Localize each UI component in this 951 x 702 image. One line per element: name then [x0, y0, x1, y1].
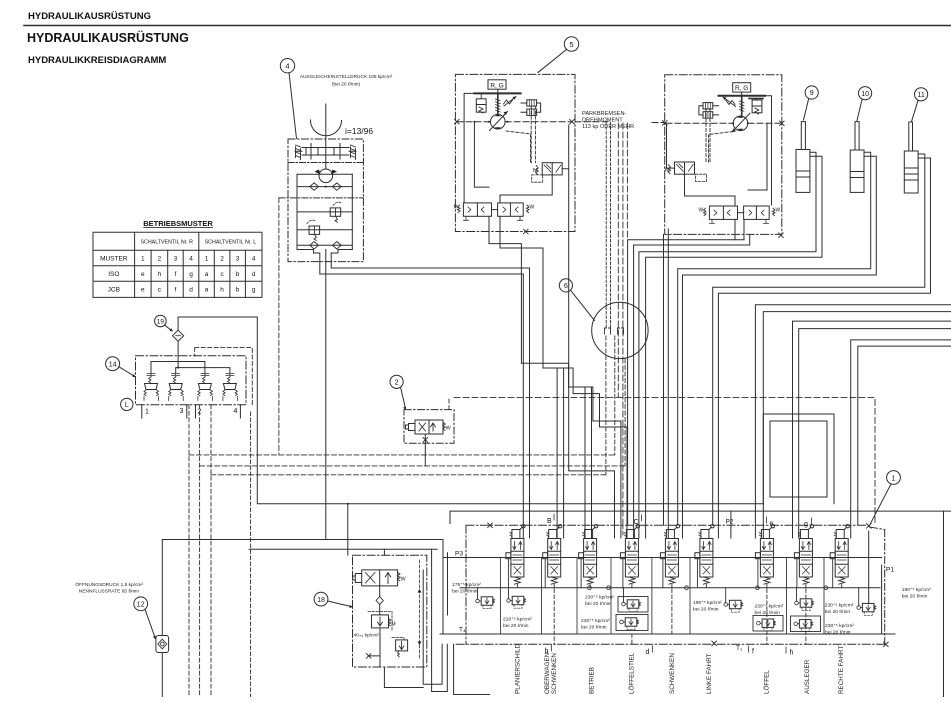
- X mark on bottom border: [524, 229, 529, 234]
- wire bus right edge 3: [793, 321, 951, 538]
- motor circle: [733, 116, 748, 131]
- callout circle 10: [857, 87, 872, 121]
- pump control pilot dashed: [278, 198, 280, 455]
- callout circle 5: [538, 37, 579, 73]
- svg-text:AUSLEGER: AUSLEGER: [804, 659, 811, 694]
- wire cyl11 a: [713, 154, 925, 525]
- solenoid valve: [362, 570, 398, 586]
- valve PLANIERSCHILD: [506, 525, 525, 588]
- rung 1 with check diamonds: [297, 186, 352, 188]
- check valve 12: [156, 636, 169, 653]
- top link: [383, 549, 385, 555]
- pilot dash to linke fahrt cap: [622, 525, 624, 536]
- callout circle 9: [804, 86, 819, 120]
- wire motor to counterbalance dashes: [531, 106, 535, 163]
- svg-text:19: 19: [157, 319, 165, 326]
- wire drops valve2: [557, 368, 564, 538]
- servo right hatch: [351, 145, 356, 160]
- shuttle valve pair bottom: [709, 206, 737, 219]
- svg-text:JCB: JCB: [108, 287, 120, 294]
- relief valve P1: [868, 531, 870, 603]
- right outer wire: [748, 96, 772, 205]
- riser through valve 12: [161, 540, 163, 698]
- valve LOEFFEL: [755, 525, 774, 588]
- svg-text:h: h: [220, 287, 224, 294]
- R,G box: [488, 80, 506, 89]
- svg-text:L: L: [125, 402, 129, 409]
- svg-text:(bei 20 ℓ/min): (bei 20 ℓ/min): [332, 82, 361, 88]
- svg-text:a: a: [205, 287, 209, 294]
- dashed centerline: [666, 122, 780, 124]
- divider dash-dot: [288, 162, 363, 164]
- drop and check: [379, 586, 381, 615]
- shaft with hatch: [497, 93, 499, 114]
- pressure labels: [452, 582, 931, 636]
- svg-text:HYDRAULIKAUSRÜSTUNG: HYDRAULIKAUSRÜSTUNG: [27, 30, 189, 45]
- svg-text:190⁺⁵ kp/cm²: 190⁺⁵ kp/cm²: [902, 587, 931, 593]
- pump unit 4 enclosure: [279, 104, 373, 455]
- svg-text:230⁺⁵ kp/cm²: 230⁺⁵ kp/cm²: [825, 603, 854, 609]
- pump drive shaft: [325, 104, 327, 169]
- callout circle 1: [871, 471, 901, 524]
- title small: [28, 11, 151, 22]
- svg-text:W: W: [446, 426, 452, 432]
- pilot dashed elbows to bank: [189, 454, 615, 456]
- control bar: [474, 92, 520, 94]
- check valve 19: [173, 330, 184, 341]
- svg-text:f: f: [752, 649, 754, 656]
- bottom line: [440, 633, 895, 635]
- svg-text:18: 18: [317, 597, 325, 604]
- rung 2 relief: [297, 211, 352, 213]
- relief valve P3 section: [476, 597, 495, 609]
- svg-text:12: 12: [137, 602, 145, 609]
- wire bus right edge 6: [858, 346, 951, 525]
- svg-text:g: g: [252, 287, 256, 294]
- callout circle 6: [559, 279, 594, 321]
- svg-text:h: h: [158, 271, 162, 278]
- svg-text:10: 10: [861, 91, 869, 98]
- svg-text:W: W: [699, 208, 704, 214]
- port letters top: [547, 518, 808, 528]
- wire drain to bank: [326, 540, 443, 635]
- valve RECHTE FAHRT: [830, 525, 849, 588]
- relief riser stubs: [478, 588, 859, 606]
- svg-text:W: W: [776, 208, 781, 214]
- svg-text:P3: P3: [455, 551, 463, 558]
- coil spring lower: [527, 109, 537, 115]
- wire right box to schwenken: [664, 229, 669, 538]
- accessory valve block 18: [353, 549, 427, 667]
- callout circle 19: [155, 315, 173, 331]
- servo left hatch: [296, 145, 301, 160]
- svg-text:1: 1: [892, 475, 896, 482]
- svg-text:2: 2: [395, 380, 399, 387]
- swivel joint 6: [592, 302, 648, 358]
- svg-text:B: B: [547, 518, 552, 525]
- svg-text:4: 4: [234, 408, 238, 415]
- relief valve ausleger a: [795, 599, 814, 611]
- port labels P3 P2 P1 T4 T1: [455, 519, 894, 653]
- svg-text:SCHWENKEN: SCHWENKEN: [669, 653, 676, 694]
- svg-text:b: b: [236, 271, 240, 278]
- pilot unit 1: [144, 374, 159, 401]
- svg-text:SCHALTVENTIL Nr. R: SCHALTVENTIL Nr. R: [141, 240, 194, 246]
- enclosure dash-dot: [455, 74, 575, 231]
- travel motor right (part of 5): [665, 75, 783, 238]
- svg-text:M: M: [533, 168, 538, 174]
- svg-text:bei 20 ℓ/min: bei 20 ℓ/min: [902, 594, 928, 600]
- svg-text:1: 1: [141, 256, 145, 263]
- wire cyl11 b: [718, 158, 930, 538]
- X marks on boundary: [488, 523, 888, 647]
- svg-text:R, G: R, G: [490, 82, 503, 89]
- pilot dash below swivel: [605, 336, 607, 475]
- svg-text:OBERWAGEN-: OBERWAGEN-: [544, 651, 551, 694]
- header rule: [24, 25, 951, 27]
- label AUSGLEICHEINSTELLDRUCK: [300, 74, 393, 88]
- svg-text:bei 20 ℓ/min: bei 20 ℓ/min: [825, 609, 851, 615]
- svg-text:BETRIEBSMUSTER: BETRIEBSMUSTER: [143, 219, 213, 228]
- circle L: [121, 398, 133, 410]
- dashes to counterbalance: [706, 109, 710, 163]
- travel motor left (part of 5): [454, 74, 576, 233]
- valve LOEFFELSTIEL: [620, 525, 639, 588]
- svg-text:190⁺⁵ kp/cm²: 190⁺⁵ kp/cm²: [693, 600, 722, 606]
- svg-text:i=13/96: i=13/96: [345, 126, 373, 136]
- cylinder 10: [850, 122, 864, 193]
- svg-text:175⁺⁵ kp/cm²: 175⁺⁵ kp/cm²: [452, 582, 481, 588]
- relief valve loeffelstiel b: [616, 615, 648, 631]
- bottom stub and X: [369, 628, 380, 667]
- svg-text:113 kp ODER MEHR: 113 kp ODER MEHR: [582, 124, 634, 130]
- cylinder 9: [796, 122, 810, 193]
- ladder rails: [297, 174, 352, 249]
- svg-text:HYDRAULIKAUSRÜSTUNG: HYDRAULIKAUSRÜSTUNG: [28, 11, 151, 22]
- svg-text:3: 3: [180, 408, 184, 415]
- wire loop rectangle right: [763, 414, 834, 504]
- relief valve loeffelstiel a: [618, 597, 648, 613]
- parkbremsen label: [582, 111, 634, 130]
- svg-text:T₁: T₁: [736, 645, 743, 652]
- drain dashes in bank: [554, 589, 806, 644]
- pilot unit 4: [223, 374, 238, 401]
- callout circle 4: [280, 58, 296, 138]
- svg-text:14: 14: [109, 361, 117, 368]
- wires left box to bank staircase b: [500, 216, 627, 538]
- svg-text:d: d: [189, 287, 193, 294]
- drain bus left: [162, 539, 325, 541]
- svg-text:3: 3: [174, 256, 178, 263]
- svg-text:ISO: ISO: [108, 271, 119, 278]
- pilot dashed long b: [617, 123, 619, 397]
- work line: [443, 557, 882, 559]
- svg-text:1: 1: [205, 256, 209, 263]
- svg-text:DREHMOMENT: DREHMOMENT: [582, 118, 623, 124]
- svg-text:230⁺⁵ kp/cm²: 230⁺⁵ kp/cm²: [755, 604, 784, 610]
- coil spring upper: [527, 100, 537, 106]
- pilot supply wire from 19 to bank: [178, 317, 763, 504]
- svg-text:4: 4: [252, 256, 256, 263]
- svg-text:P2: P2: [726, 519, 734, 526]
- svg-text:W: W: [401, 577, 407, 583]
- reducing valve: [372, 615, 389, 628]
- cylinder 11: [904, 122, 918, 193]
- valve BETRIEB: [579, 525, 598, 588]
- svg-text:11: 11: [917, 92, 924, 99]
- motor circle: [491, 114, 506, 129]
- dashed pilot bus to bank: [454, 397, 875, 525]
- svg-text:6: 6: [564, 283, 568, 290]
- bell arc: [310, 120, 341, 136]
- svg-text:R, G: R, G: [735, 85, 748, 92]
- wire bus right edge 2: [763, 312, 951, 538]
- svg-text:5: 5: [569, 40, 573, 49]
- control bar: [719, 95, 766, 97]
- rung 3 relief: [297, 229, 352, 231]
- wire bus right edge 1: [755, 305, 951, 538]
- svg-text:ÖFFNUNGSDRUCK 1,5 kp/cm²: ÖFFNUNGSDRUCK 1,5 kp/cm²: [75, 581, 143, 588]
- svg-text:HYDRAULIKKREISDIAGRAMM: HYDRAULIKKREISDIAGRAMM: [28, 55, 166, 66]
- svg-text:9: 9: [810, 90, 814, 97]
- svg-text:P1: P1: [886, 567, 894, 574]
- svg-text:T₄: T₄: [459, 627, 466, 634]
- ladder bottom exits: [297, 250, 352, 254]
- wire bus right edge 5: [851, 340, 951, 538]
- svg-text:bei 20 ℓ/min: bei 20 ℓ/min: [825, 630, 851, 636]
- check line: [460, 587, 880, 589]
- valve SCHWENKEN: [660, 525, 679, 588]
- svg-text:g: g: [804, 521, 808, 528]
- counterbalance valve: [675, 162, 695, 174]
- valve LINKE FAHRT: [695, 525, 714, 588]
- wire P2 feed: [450, 511, 951, 523]
- valve OBERWAGEN-SCHWENKEN: [543, 525, 562, 588]
- callout circle 2: [390, 375, 406, 410]
- svg-text:230⁺⁵ kp/cm²: 230⁺⁵ kp/cm²: [581, 618, 610, 624]
- pilot dashed through swivel a: [605, 123, 607, 328]
- wire bus right edge 4: [799, 329, 951, 538]
- svg-text:4: 4: [285, 62, 289, 71]
- svg-text:bei 20 ℓ/min: bei 20 ℓ/min: [755, 610, 781, 616]
- svg-text:d: d: [252, 271, 256, 278]
- parkbremsen dashed centerline: [457, 121, 571, 123]
- svg-text:e: e: [141, 287, 145, 294]
- solenoid valve 2: [404, 397, 454, 466]
- relief valve linke fahrt: [724, 600, 743, 612]
- pilot dashed lines down from 14: [188, 405, 190, 697]
- callout circle 12: [134, 597, 156, 639]
- svg-text:a: a: [205, 271, 209, 278]
- port dividers and numbers: [142, 405, 241, 418]
- port letters bottom: [545, 648, 794, 657]
- wires left box to bank c: [569, 125, 615, 538]
- wires right box to bank: [735, 219, 744, 239]
- rung 4 with check diamonds: [297, 244, 352, 246]
- function labels rotated: [514, 644, 845, 694]
- svg-text:d: d: [646, 649, 650, 656]
- relief: [396, 640, 408, 651]
- svg-text:2: 2: [220, 256, 224, 263]
- wire cyl9 b: [646, 156, 822, 538]
- pilot unit 2: [169, 374, 184, 401]
- svg-text:bei 20 ℓ/min: bei 20 ℓ/min: [452, 589, 478, 595]
- svg-text:M: M: [454, 205, 458, 211]
- shuttle valve pair bottom: [463, 203, 491, 216]
- enclosure dash-dot: [665, 75, 782, 235]
- dashed link between motors: [575, 121, 665, 124]
- svg-text:RECHTE FAHRT: RECHTE FAHRT: [838, 646, 845, 694]
- svg-text:230⁺⁵ kp/cm²: 230⁺⁵ kp/cm²: [585, 595, 614, 601]
- svg-text:1: 1: [145, 409, 149, 416]
- svg-text:W: W: [530, 205, 535, 211]
- left outer wire: [464, 93, 489, 203]
- wire supply drop to block 18: [347, 504, 349, 555]
- brake cylinder: [476, 99, 486, 112]
- svg-text:LÖFFELSTIEL: LÖFFELSTIEL: [627, 652, 635, 694]
- right inner dashed: [419, 560, 421, 660]
- svg-text:SCHALTVENTIL Nr. L: SCHALTVENTIL Nr. L: [205, 240, 257, 246]
- servo cylinder: [302, 148, 349, 156]
- wire right edge drop: [943, 511, 945, 697]
- svg-text:f: f: [174, 287, 176, 294]
- cross link buses: [151, 362, 230, 378]
- relief valve loeffel: [753, 616, 783, 632]
- svg-text:b: b: [236, 287, 240, 294]
- svg-text:4: 4: [189, 256, 193, 263]
- svg-text:SCHWENKEN: SCHWENKEN: [551, 653, 558, 694]
- check nodes: [588, 586, 592, 590]
- section divider lines: [500, 558, 824, 635]
- X on bottom border: [779, 233, 784, 238]
- swash spring arrow: [723, 97, 736, 107]
- counterbalance valve left unit: [542, 163, 562, 175]
- svg-text:LÖFFEL: LÖFFEL: [763, 670, 771, 694]
- valve AUSLEGER: [794, 525, 813, 588]
- wire pump output 2: [331, 262, 529, 538]
- svg-text:AUSGLEICHEINSTELLDRUCK 105 kp/: AUSGLEICHEINSTELLDRUCK 105 kp/cm²: [300, 74, 393, 80]
- svg-text:230⁺⁵ kp/cm²: 230⁺⁵ kp/cm²: [825, 623, 854, 629]
- svg-text:3: 3: [236, 256, 240, 263]
- dashed line right of 14: [250, 412, 252, 697]
- wire drops betrieb: [585, 387, 592, 538]
- subtitle: [28, 55, 166, 66]
- svg-text:MUSTER: MUSTER: [100, 256, 128, 263]
- svg-text:bei 20 ℓ/min: bei 20 ℓ/min: [503, 623, 529, 629]
- tank comb bottom: [423, 570, 442, 684]
- svg-text:LINKE FAHRT: LINKE FAHRT: [706, 653, 713, 694]
- svg-text:2: 2: [158, 256, 162, 263]
- table BETRIEBSMUSTER: [93, 219, 262, 297]
- R,G box: [733, 83, 751, 92]
- svg-text:g: g: [189, 271, 193, 278]
- wire pump output 1: [320, 262, 524, 538]
- wire cyl10 a: [678, 152, 871, 525]
- pump circle: [319, 169, 333, 183]
- svg-text:bei 20 ℓ/min: bei 20 ℓ/min: [693, 607, 719, 613]
- main control valve bank: [440, 519, 895, 653]
- svg-text:e: e: [141, 271, 145, 278]
- shaft hatch: [741, 96, 743, 116]
- control dash-dot line: [279, 197, 364, 199]
- svg-text:PLANIERSCHILD: PLANIERSCHILD: [514, 644, 521, 694]
- svg-text:40₊₅ kp/cm²: 40₊₅ kp/cm²: [354, 633, 380, 639]
- relief valve planierschild: [507, 596, 526, 608]
- right verticals: [881, 565, 883, 634]
- svg-text:f: f: [174, 271, 176, 278]
- relief valve ausleger b: [791, 616, 821, 632]
- callout circle 14: [106, 357, 136, 378]
- wire cyl10 b: [683, 156, 877, 538]
- pilot unit 3: [198, 374, 213, 401]
- wire cyl9 a: [639, 152, 816, 538]
- callout circle 18: [314, 592, 353, 608]
- svg-text:bei 20 ℓ/min: bei 20 ℓ/min: [585, 601, 611, 607]
- svg-text:h: h: [790, 650, 794, 657]
- svg-text:bei 20 ℓ/min: bei 20 ℓ/min: [581, 625, 607, 631]
- outer dash-dot boundary: [455, 525, 885, 644]
- title large: [27, 30, 189, 45]
- wires counterbalance loop: [500, 169, 569, 203]
- svg-text:BETRIEB: BETRIEB: [589, 667, 596, 694]
- wire diamond down: [177, 341, 179, 367]
- wires left box to bank staircase a: [489, 216, 621, 538]
- coil springs: [703, 103, 713, 109]
- brake cylinder w/ T handle: [749, 98, 763, 100]
- svg-text:NENNFLUSSRATE 65 ℓ/min: NENNFLUSSRATE 65 ℓ/min: [79, 589, 139, 595]
- pilot valve group 14: [136, 348, 253, 418]
- svg-text:PARKBREMSEN-: PARKBREMSEN-: [582, 111, 626, 117]
- svg-text:210⁺⁵ kp/cm²: 210⁺⁵ kp/cm²: [503, 617, 532, 623]
- opening pressure label: [75, 581, 143, 595]
- swash spring arrow: [504, 97, 517, 107]
- wire pump center drain: [325, 262, 327, 540]
- callout circle 11: [912, 88, 928, 122]
